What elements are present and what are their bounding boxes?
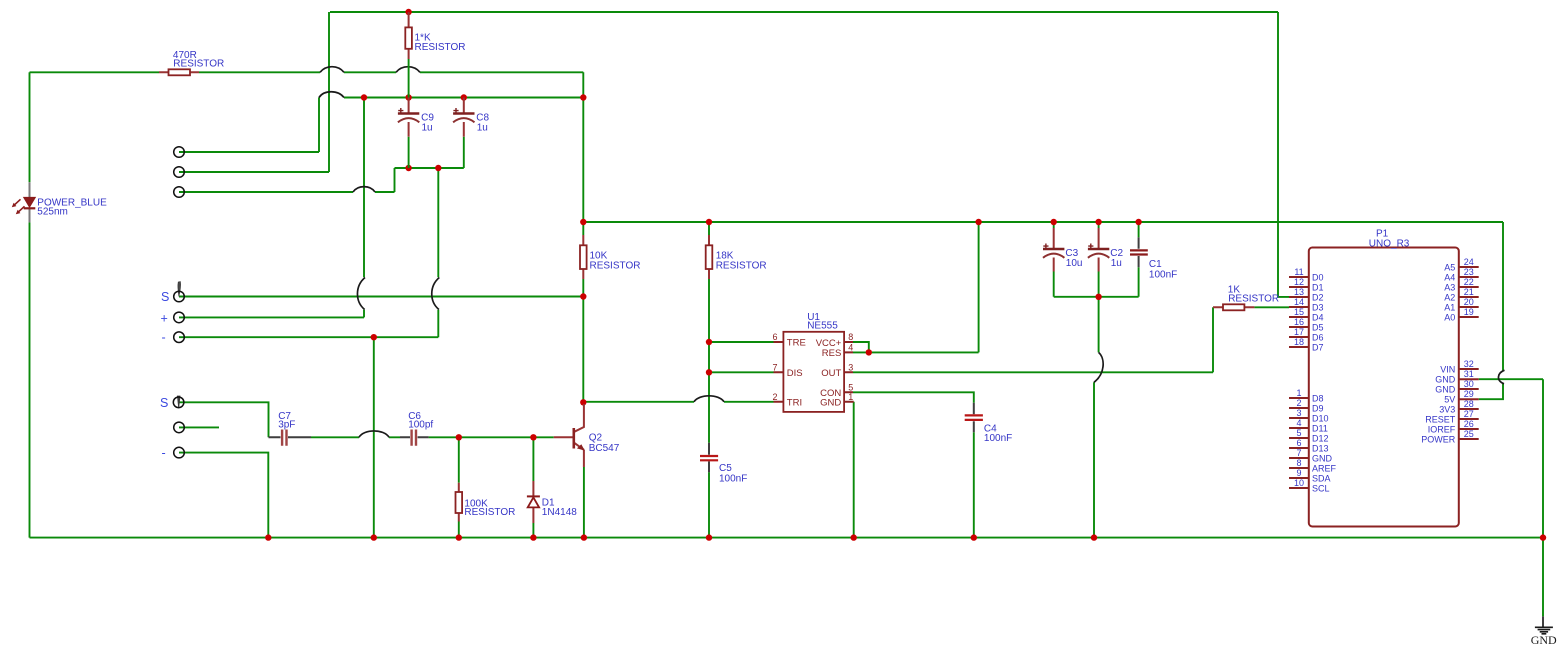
svg-text:2: 2 <box>772 392 777 402</box>
wire C9/C8 bottom rail y=168 <box>395 167 464 169</box>
svg-text:100nF: 100nF <box>984 433 1012 444</box>
pin 3 D10 <box>1289 408 1329 423</box>
svg-text:5: 5 <box>1296 428 1301 438</box>
wire RES pin4 row y=352.4 <box>853 351 979 353</box>
wire hop vertical x=438.3 over S row <box>432 278 440 310</box>
resistor 1K <box>1213 285 1279 311</box>
junction VCC rail C3 <box>1051 219 1057 225</box>
pin 9 SDA <box>1289 468 1331 483</box>
junction rail x=373.8 <box>371 534 377 540</box>
pin 26 IOREF <box>1428 419 1479 434</box>
svg-text:29: 29 <box>1464 389 1474 399</box>
pin 29 5V <box>1444 389 1478 404</box>
svg-text:SDA: SDA <box>1312 473 1331 483</box>
wire x=1278 drop from top rail to pin D2 <box>1278 12 1289 297</box>
svg-text:UNO_R3: UNO_R3 <box>1369 239 1410 250</box>
pin 12 D1 <box>1289 277 1324 292</box>
svg-text:3: 3 <box>848 362 853 372</box>
pin 25 POWER <box>1421 429 1478 444</box>
svg-text:1u: 1u <box>477 123 488 134</box>
svg-text:6: 6 <box>772 332 777 342</box>
junction S row 10K bottom <box>580 293 586 299</box>
junction rail C4 <box>971 534 977 540</box>
junction plus rail x=364 <box>361 94 367 100</box>
junction base row D1 <box>530 434 536 440</box>
svg-text:GND: GND <box>820 397 841 408</box>
wire D1 to rail <box>532 523 534 538</box>
svg-text:RESISTOR: RESISTOR <box>590 260 641 271</box>
junction VCC rail x=583 <box>580 219 586 225</box>
svg-text:D5: D5 <box>1312 322 1324 332</box>
svg-text:16: 16 <box>1294 317 1304 327</box>
svg-text:19: 19 <box>1464 307 1474 317</box>
junction DIS row <box>706 369 712 375</box>
svg-text:30: 30 <box>1464 379 1474 389</box>
wire 470R rail y=72 left segment <box>30 71 160 73</box>
pin 10 SCL <box>1289 478 1330 493</box>
svg-text:D13: D13 <box>1312 443 1329 453</box>
wire hop on TRI row over x=709 <box>694 396 724 402</box>
svg-text:-: - <box>162 446 166 460</box>
svg-text:GND: GND <box>1435 375 1456 385</box>
svg-text:12: 12 <box>1294 277 1304 287</box>
svg-text:15: 15 <box>1294 307 1304 317</box>
wire hop on y=97 over x=329 <box>319 92 344 98</box>
resistor 10K <box>580 235 640 279</box>
junction rail C5 <box>706 534 712 540</box>
wire x=709 18K top <box>708 222 710 235</box>
junction C2 bottom rail <box>1095 294 1101 300</box>
junction minus riser top <box>435 165 441 171</box>
svg-text:4: 4 <box>1296 418 1301 428</box>
svg-text:14: 14 <box>1294 297 1304 307</box>
svg-text:D9: D9 <box>1312 403 1324 413</box>
pin 30 GND <box>1435 379 1478 394</box>
svg-text:D3: D3 <box>1312 302 1324 312</box>
wire LED vertical bottom x=29.5 <box>29 222 31 537</box>
wire hop on y=72 over x=329 <box>320 67 344 73</box>
pin 4 D11 <box>1289 418 1328 433</box>
wire hop on y=192 over x=364 <box>353 187 375 192</box>
svg-text:8: 8 <box>1296 458 1301 468</box>
pin 6 D13 <box>1289 438 1329 453</box>
wire minus2 row y=452.6 <box>179 453 268 538</box>
svg-text:1N4148: 1N4148 <box>542 507 577 518</box>
wire Q2 emitter to rail <box>583 467 585 538</box>
pin 20 A1 <box>1444 297 1478 312</box>
transistor Q2 BC547 <box>554 404 620 467</box>
svg-text:525nm: 525nm <box>37 207 68 218</box>
capacitor C4 <box>965 403 1013 444</box>
svg-text:GND: GND <box>1531 633 1557 647</box>
svg-text:5: 5 <box>848 382 853 392</box>
wire connector3 riser x=394.5 <box>394 168 396 192</box>
svg-text:100nF: 100nF <box>719 474 747 485</box>
wire x=583.3 main vertical top <box>582 72 584 235</box>
pin 2 D9 <box>1289 398 1324 413</box>
wire LED vertical top x=29.5 <box>29 72 31 182</box>
svg-text:1u: 1u <box>1111 258 1122 269</box>
junction TRE row <box>706 339 712 345</box>
node S2 probe <box>160 396 184 410</box>
wire hop on y=437 over x=373.8 <box>359 431 389 437</box>
pin 13 D2 <box>1289 287 1324 302</box>
svg-text:+: + <box>161 311 168 325</box>
wire node - row y=337.2 <box>179 336 438 338</box>
wire connector2 riser x=329 <box>328 12 330 172</box>
svg-text:A3: A3 <box>1444 282 1455 292</box>
svg-text:D8: D8 <box>1312 393 1324 403</box>
junction rail C2 net <box>1091 534 1097 540</box>
pin 31 GND <box>1435 369 1478 384</box>
ground GND <box>1531 616 1557 647</box>
svg-text:GND: GND <box>1312 453 1333 463</box>
svg-text:24: 24 <box>1464 257 1474 267</box>
junction at 1*K top <box>405 9 411 15</box>
wire middle connector stub y=427.4 <box>179 426 219 428</box>
svg-text:D2: D2 <box>1312 292 1324 302</box>
svg-text:-: - <box>162 331 166 345</box>
junction RES row <box>866 349 872 355</box>
svg-text:100nF: 100nF <box>1149 269 1177 280</box>
wire vertical x=364 plus riser with hop gap <box>363 98 365 318</box>
wire node + row y=317.4 <box>179 316 364 318</box>
pin 24 A5 <box>1444 257 1478 272</box>
svg-text:A4: A4 <box>1444 272 1455 282</box>
svg-text:4: 4 <box>848 342 853 352</box>
resistor 1*K <box>405 12 465 98</box>
svg-text:18: 18 <box>1294 337 1304 347</box>
svg-text:10: 10 <box>1294 478 1304 488</box>
wire 1K to pin D3 y=307.3 <box>1254 306 1289 308</box>
pin 21 A2 <box>1444 287 1478 302</box>
wire C2 net lower drop x=1094 <box>1093 382 1095 537</box>
junction base row 100K <box>456 434 462 440</box>
svg-text:RESISTOR: RESISTOR <box>173 59 224 70</box>
svg-text:10u: 10u <box>1066 258 1083 269</box>
junction VCC rail 18K <box>706 219 712 225</box>
resistor 470R <box>159 50 224 76</box>
svg-text:17: 17 <box>1294 327 1304 337</box>
wire hop on y=72 over x=408.6 <box>396 67 420 73</box>
svg-text:20: 20 <box>1464 297 1474 307</box>
wire top rail net D2/1*K y=12 <box>330 11 1278 13</box>
wire TRI row y=401.8 with hop gap <box>583 401 773 403</box>
node S probe <box>161 282 184 304</box>
resistor 18K <box>706 235 767 279</box>
svg-text:Q2: Q2 <box>589 432 603 443</box>
wire connector3 row y=192 with hop gap <box>179 191 395 193</box>
junction C9 bottom <box>405 165 411 171</box>
svg-text:27: 27 <box>1464 409 1474 419</box>
pin 16 D5 <box>1289 317 1324 332</box>
wire bottom rail y=537.6 <box>30 537 1544 539</box>
junction plus rail C8 <box>461 94 467 100</box>
svg-text:A1: A1 <box>1444 302 1455 312</box>
wire D1 drop x=533.4 <box>532 437 534 481</box>
svg-text:22: 22 <box>1464 277 1474 287</box>
svg-text:OUT: OUT <box>821 368 841 379</box>
svg-text:3pF: 3pF <box>278 420 295 431</box>
capacitor C6 <box>400 411 433 446</box>
node -2 connector <box>162 446 185 460</box>
wire TRE row y=342 <box>709 341 774 343</box>
svg-text:7: 7 <box>1296 448 1301 458</box>
svg-text:23: 23 <box>1464 267 1474 277</box>
wire vertical x=373.8 minus drop <box>373 337 375 537</box>
junction Q2 collector <box>580 399 586 405</box>
svg-text:D11: D11 <box>1312 423 1328 433</box>
svg-text:8: 8 <box>848 332 853 342</box>
wire C2 leads x=1098.6 <box>1098 222 1100 352</box>
svg-text:RESISTOR: RESISTOR <box>464 507 515 518</box>
wire C1 leads x=1138.6 <box>1138 222 1140 297</box>
pin 19 A0 <box>1444 307 1478 322</box>
wire C5 to rail <box>708 472 710 537</box>
pin 17 D6 <box>1289 327 1324 342</box>
wire plus rail y=97 <box>344 97 583 99</box>
junction plus rail C9 <box>405 94 411 100</box>
wire C7-C6 row y=437.3 segments <box>311 436 554 438</box>
junction rail Q2 <box>581 534 587 540</box>
svg-text:13: 13 <box>1294 287 1304 297</box>
svg-text:RESET: RESET <box>1425 414 1456 424</box>
junction plus rail x=583 <box>580 94 586 100</box>
wire 470R rail y=72 right segments with hop gaps <box>199 71 583 73</box>
wire GND pin31 row y=379.2 <box>1479 378 1543 380</box>
pin 11 D0 <box>1289 267 1324 282</box>
svg-text:D10: D10 <box>1312 413 1329 423</box>
svg-text:100pf: 100pf <box>408 420 433 431</box>
svg-text:9: 9 <box>1296 468 1301 478</box>
wire S2 row y=402.3 <box>179 402 269 437</box>
wire node S1 row y=296.5 <box>179 296 583 298</box>
connector pin circle 1 <box>174 147 185 158</box>
svg-text:IOREF: IOREF <box>1428 424 1456 434</box>
pin 8 AREF <box>1289 458 1337 473</box>
pin 1 D8 <box>1289 388 1324 403</box>
capacitor C5 <box>700 443 747 485</box>
wire connector2 row y=172 <box>179 171 329 173</box>
capacitor C2 polarized <box>1088 228 1124 272</box>
wire connector1 row y=152 <box>179 151 319 153</box>
svg-text:VIN: VIN <box>1440 364 1455 374</box>
connector pin circle 3 <box>174 187 185 198</box>
svg-text:D6: D6 <box>1312 332 1324 342</box>
wire 100K to rail <box>458 522 460 538</box>
wire CON row y=392.3 <box>853 392 974 402</box>
diode D1 1N4148 <box>527 481 577 523</box>
svg-text:TRI: TRI <box>787 397 802 408</box>
svg-text:SCL: SCL <box>1312 483 1330 493</box>
wire 5V riser x=1503 with hop gap <box>1479 222 1503 399</box>
svg-text:DIS: DIS <box>787 368 803 379</box>
svg-text:7: 7 <box>772 362 777 372</box>
svg-text:S: S <box>160 396 168 410</box>
junction rail 100K <box>456 534 462 540</box>
svg-text:26: 26 <box>1464 419 1474 429</box>
junction rail minus2 <box>265 534 271 540</box>
pin 5 D12 <box>1289 428 1329 443</box>
wire GND drop x=1543 <box>1542 379 1544 616</box>
wire connector1 riser x=319 <box>318 98 320 153</box>
junction VCC rail x=978 <box>975 219 981 225</box>
capacitor C7 <box>269 411 312 446</box>
wire C3-C1 bottom rail y=296.8 <box>1054 296 1139 298</box>
junction rail GND <box>1540 534 1546 540</box>
wire x=583.3 10K to Q2 <box>582 279 584 402</box>
capacitor C8 polarized <box>453 98 489 169</box>
wire OUT riser to 1K x=1213 <box>1212 307 1214 372</box>
wire DIS row y=372.3 <box>709 371 774 373</box>
svg-text:TRE: TRE <box>787 338 806 349</box>
junction rail D1 <box>530 534 536 540</box>
svg-text:5V: 5V <box>1444 395 1455 405</box>
connector middle row2 <box>174 422 185 433</box>
pin 22 A3 <box>1444 277 1478 292</box>
svg-text:D12: D12 <box>1312 433 1329 443</box>
LED POWER_BLUE <box>12 182 107 222</box>
svg-text:C5: C5 <box>719 463 732 474</box>
svg-text:1: 1 <box>848 392 853 402</box>
svg-text:3V3: 3V3 <box>1439 404 1455 414</box>
wire x=709 18K to C5 <box>708 279 710 443</box>
wire hop vertical x=1503 over GND row <box>1498 370 1504 384</box>
svg-text:RESISTOR: RESISTOR <box>1228 293 1279 304</box>
junction rail pin1 <box>851 534 857 540</box>
svg-text:25: 25 <box>1464 429 1474 439</box>
wire vertical x=438.3 C8 bottom to minus with hop gap <box>437 168 439 337</box>
junction VCC rail C1 <box>1135 219 1141 225</box>
svg-text:AREF: AREF <box>1312 463 1337 473</box>
svg-text:NE555: NE555 <box>807 321 838 332</box>
resistor 100K <box>456 483 516 522</box>
svg-text:A0: A0 <box>1444 312 1455 322</box>
junction VCC rail C2 <box>1095 219 1101 225</box>
IC U1 NE555 <box>772 312 853 412</box>
wire hop vertical x=1098.6 over OUT row <box>1094 352 1103 382</box>
wire x=978.6 riser RES to VCC rail <box>978 222 980 352</box>
capacitor C9 polarized <box>398 98 434 169</box>
wire C3 leads x=1053.7 <box>1053 222 1055 297</box>
svg-text:A2: A2 <box>1444 292 1455 302</box>
svg-text:D1: D1 <box>1312 282 1324 292</box>
svg-text:28: 28 <box>1464 399 1474 409</box>
svg-text:32: 32 <box>1464 359 1474 369</box>
wire VCC+ pin8 jog y=342 <box>853 342 869 352</box>
svg-text:2: 2 <box>1296 398 1301 408</box>
svg-text:RESISTOR: RESISTOR <box>415 42 466 53</box>
wire C4 to rail x=973.8 <box>973 432 975 537</box>
connector pin circle 2 <box>174 167 185 178</box>
svg-text:GND: GND <box>1435 384 1456 394</box>
pin 15 D4 <box>1289 307 1324 322</box>
pin 27 RESET <box>1425 409 1478 424</box>
svg-text:S: S <box>161 290 169 304</box>
svg-text:RESISTOR: RESISTOR <box>716 260 767 271</box>
pin 23 A4 <box>1444 267 1478 282</box>
svg-text:31: 31 <box>1464 369 1474 379</box>
svg-text:D7: D7 <box>1312 342 1324 352</box>
wire hop vertical x=364 over S row <box>357 278 365 310</box>
node + connector <box>161 311 185 325</box>
pin 32 VIN <box>1440 359 1478 374</box>
svg-text:6: 6 <box>1296 438 1301 448</box>
svg-text:A5: A5 <box>1444 262 1455 272</box>
wire VCC rail y=222 <box>583 221 1503 223</box>
svg-text:D0: D0 <box>1312 272 1324 282</box>
junction minus row drop <box>371 334 377 340</box>
svg-text:1: 1 <box>1296 388 1301 398</box>
pin 18 D7 <box>1289 337 1324 352</box>
wire 100K drop x=458.8 <box>458 437 460 482</box>
svg-text:21: 21 <box>1464 287 1474 297</box>
svg-text:3: 3 <box>1296 408 1301 418</box>
wire GND pin1 drop x=853.7 <box>853 402 855 538</box>
svg-text:POWER: POWER <box>1421 434 1456 444</box>
wire OUT row y=372.3 <box>853 371 1213 373</box>
capacitor C1 <box>1130 237 1177 280</box>
node - connector <box>162 331 185 345</box>
svg-text:1u: 1u <box>422 123 433 134</box>
IC P1 UNO_R3 body <box>1309 228 1459 526</box>
pin 28 3V3 <box>1439 399 1478 414</box>
pin 7 GND <box>1289 448 1333 463</box>
svg-text:11: 11 <box>1294 267 1303 277</box>
pin 14 D3 <box>1289 297 1324 312</box>
capacitor C3 polarized <box>1043 228 1082 272</box>
svg-text:BC547: BC547 <box>589 443 620 454</box>
svg-text:D4: D4 <box>1312 312 1324 322</box>
svg-text:RES: RES <box>822 348 842 359</box>
